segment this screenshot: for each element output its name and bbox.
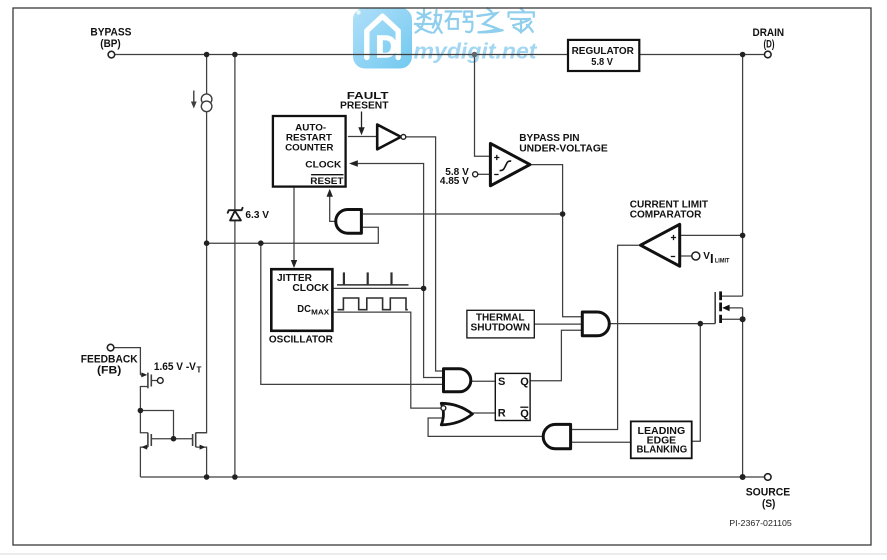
- svg-text:RESET: RESET: [310, 176, 343, 187]
- svg-text:PRESENT: PRESENT: [340, 99, 389, 111]
- svg-text:REGULATOR: REGULATOR: [572, 46, 635, 57]
- svg-text:DRAIN: DRAIN: [753, 27, 785, 39]
- svg-text:D: D: [376, 29, 398, 64]
- svg-text:T: T: [197, 366, 202, 375]
- svg-text:(D): (D): [764, 38, 775, 50]
- svg-text:Q: Q: [520, 408, 529, 420]
- svg-text:Q: Q: [520, 376, 529, 388]
- svg-text:COMPARATOR: COMPARATOR: [630, 209, 702, 221]
- svg-text:R: R: [498, 408, 506, 420]
- svg-text:BYPASS: BYPASS: [90, 27, 131, 39]
- svg-text:mydigit.net: mydigit.net: [414, 39, 539, 64]
- svg-text:S: S: [498, 376, 505, 388]
- svg-text:(FB): (FB): [97, 365, 122, 377]
- svg-text:MAX: MAX: [311, 310, 329, 317]
- svg-text:BLANKING: BLANKING: [637, 445, 688, 456]
- svg-text:(S): (S): [762, 498, 776, 510]
- svg-text:UNDER-VOLTAGE: UNDER-VOLTAGE: [519, 143, 608, 155]
- svg-text:SHUTDOWN: SHUTDOWN: [471, 323, 531, 334]
- svg-text:CLOCK: CLOCK: [305, 159, 341, 170]
- svg-text:SOURCE: SOURCE: [746, 487, 791, 499]
- svg-text:FEEDBACK: FEEDBACK: [81, 353, 138, 365]
- svg-text:DC: DC: [297, 304, 311, 315]
- svg-text:5.8 V: 5.8 V: [591, 57, 613, 68]
- svg-text:6.3 V: 6.3 V: [245, 209, 269, 221]
- svg-text:4.85 V: 4.85 V: [440, 176, 469, 187]
- svg-text:1.65 V -V: 1.65 V -V: [154, 361, 197, 373]
- svg-text:I: I: [710, 251, 714, 266]
- svg-text:OSCILLATOR: OSCILLATOR: [269, 334, 333, 346]
- svg-text:COUNTER: COUNTER: [285, 143, 333, 154]
- svg-text:(BP): (BP): [100, 38, 121, 50]
- svg-text:CLOCK: CLOCK: [292, 283, 329, 294]
- svg-text:PI-2367-021105: PI-2367-021105: [729, 519, 792, 528]
- svg-text:LIMIT: LIMIT: [715, 258, 730, 265]
